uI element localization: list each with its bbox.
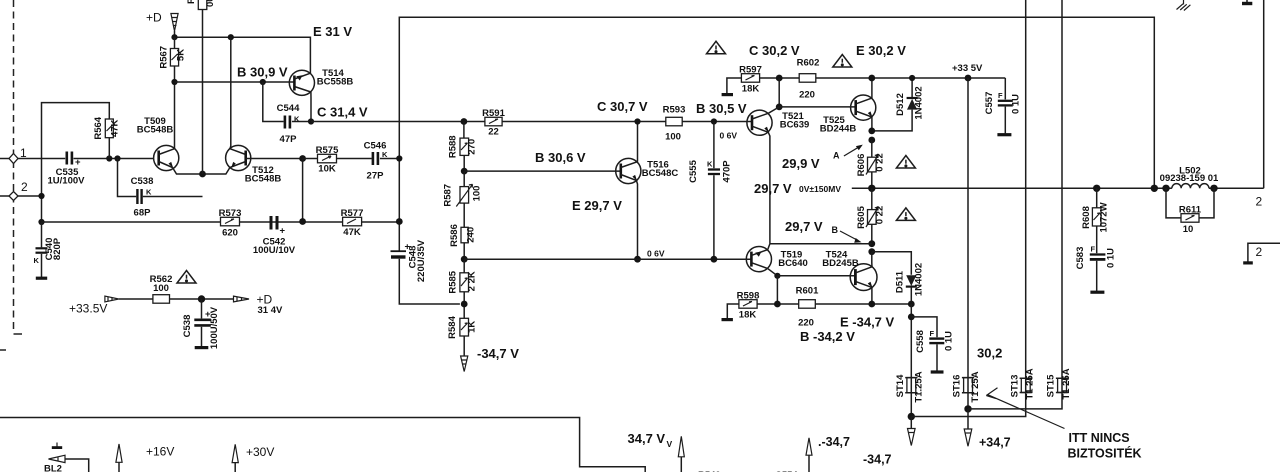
svg-text:R573: R573 <box>219 208 242 219</box>
svg-text:5K: 5K <box>176 49 187 61</box>
node dot T524 emitter <box>868 301 875 308</box>
warning triangle 5 <box>177 271 196 284</box>
resistor R5xx top (cut off) <box>186 0 216 10</box>
svg-text:ST15: ST15 <box>1046 374 1057 397</box>
wire R601 rail <box>757 303 911 305</box>
resistor R597 18K with ground <box>722 64 780 94</box>
svg-text:K: K <box>146 188 152 197</box>
svg-text:F: F <box>1091 245 1096 254</box>
svg-text:BD244B: BD244B <box>820 124 857 135</box>
node dot T519 coll / R601 <box>774 301 781 308</box>
capacitor C544 47P <box>263 82 311 145</box>
svg-text:.-34,7: .-34,7 <box>818 435 850 449</box>
node dot conn2 <box>38 193 44 199</box>
svg-text:R575: R575 <box>316 145 339 156</box>
node dot R567 top <box>171 34 177 40</box>
node dot output B lower <box>868 248 875 255</box>
svg-text:R605: R605 <box>856 205 867 228</box>
transistor T512 <box>226 145 282 184</box>
pointer line ITT NINCS <box>986 388 1064 429</box>
wire base rail to T514 <box>175 81 295 83</box>
svg-text:C546: C546 <box>364 141 387 152</box>
svg-text:18K: 18K <box>739 310 757 321</box>
wire T519 coll down <box>776 276 778 304</box>
vertical from terminal 1 <box>1263 0 1265 188</box>
node dot output A upper <box>868 127 875 134</box>
supply arrow up mid2 <box>806 438 812 472</box>
node dot C538b <box>198 295 205 302</box>
svg-text:B 30,6 V: B 30,6 V <box>535 150 586 165</box>
svg-text:47K: 47K <box>110 119 121 137</box>
capacitor C535 <box>48 152 86 187</box>
svg-text:K: K <box>707 160 713 169</box>
terminal 2 bottom right <box>1243 243 1280 263</box>
svg-text:-34,7 V: -34,7 V <box>477 346 519 361</box>
supply arrow +16V up <box>116 444 122 472</box>
wire ST16 node to ST15 <box>968 393 1062 409</box>
svg-text:E 29,7 V: E 29,7 V <box>572 198 622 213</box>
wire T525 base <box>779 106 856 108</box>
svg-text:31 4V: 31 4V <box>258 305 283 316</box>
svg-text:BC548B: BC548B <box>245 174 282 185</box>
svg-text:+D: +D <box>146 11 162 25</box>
svg-text:+16V: +16V <box>146 445 174 459</box>
svg-text:+: + <box>280 226 286 237</box>
svg-text:1N4002: 1N4002 <box>914 86 925 119</box>
resistor R584 1K <box>447 315 477 356</box>
svg-text:1N4002: 1N4002 <box>914 263 925 296</box>
fuse ST14 <box>895 371 925 416</box>
svg-text:R586: R586 <box>449 224 460 247</box>
resistor R575 10K <box>303 145 372 174</box>
node dot T516 coll <box>634 118 640 124</box>
svg-text:29,7 V: 29,7 V <box>754 181 792 196</box>
node dot L502 right <box>1210 185 1217 192</box>
feed arrow +D out <box>234 296 250 302</box>
svg-text:T1 25A: T1 25A <box>970 371 981 402</box>
resistor R564 <box>93 116 121 158</box>
transistor T524 <box>822 249 877 290</box>
svg-text:E 31 V: E 31 V <box>313 24 352 39</box>
node dot C558 tap <box>908 314 915 321</box>
node dot ST16 feed <box>965 75 972 82</box>
node dot R597/R602 <box>776 75 783 82</box>
svg-text:R587: R587 <box>443 184 454 207</box>
svg-text:220: 220 <box>799 90 815 101</box>
wire T512 base right <box>246 158 303 160</box>
wire B30,6 to T516 base <box>464 170 621 172</box>
svg-text:R593: R593 <box>663 104 686 115</box>
svg-text:1: 1 <box>20 146 27 160</box>
svg-text:D512: D512 <box>895 93 906 116</box>
svg-text:+33 5V: +33 5V <box>952 63 983 74</box>
wire T516 collector <box>637 122 639 162</box>
svg-text:BC639: BC639 <box>780 120 810 131</box>
svg-text:R567: R567 <box>159 46 170 69</box>
wire top loop from x399 corner to right <box>399 17 1154 251</box>
node dot C538 tap <box>114 155 120 161</box>
svg-text:18K: 18K <box>742 84 760 95</box>
svg-text:V: V <box>667 439 673 449</box>
node dot T512 collector branch <box>228 34 234 40</box>
svg-text:C583: C583 <box>1075 247 1086 270</box>
svg-text:R584: R584 <box>447 315 458 338</box>
resistor R588 270 <box>448 122 478 172</box>
svg-text:E 30,2 V: E 30,2 V <box>856 43 906 58</box>
svg-text:B -34,2 V: B -34,2 V <box>800 329 855 344</box>
svg-text:220U/35V: 220U/35V <box>416 239 427 282</box>
node dot C555 bottom <box>711 256 718 263</box>
emitter resistor R605 0,22 <box>856 188 886 243</box>
supply arrow +30V up <box>232 444 238 472</box>
warning triangle 3 <box>896 156 915 169</box>
svg-text:BC548B: BC548B <box>137 125 174 136</box>
wire input node to T509 base <box>74 158 155 160</box>
svg-text:0 1U: 0 1U <box>1106 248 1117 268</box>
svg-text:BC640: BC640 <box>778 258 808 269</box>
wire T524 emitter down <box>871 287 873 304</box>
wire D511 node down <box>910 304 912 378</box>
resistor R601 220 <box>796 285 819 328</box>
fuse ST16 <box>952 371 982 409</box>
node dot R608 top <box>1093 185 1100 192</box>
svg-text:29,7 V: 29,7 V <box>785 219 823 234</box>
svg-text:0 6V: 0 6V <box>720 131 738 141</box>
output rail 29,7V <box>852 187 1264 189</box>
pointer arrow B <box>840 231 862 243</box>
warning triangle 2 <box>833 55 852 68</box>
svg-text:R602: R602 <box>797 58 820 69</box>
resistor R585 2,2K <box>448 259 478 318</box>
dashed border left <box>0 0 22 350</box>
svg-text:100U/10V: 100U/10V <box>253 245 296 256</box>
capacitor C542 100U/10V <box>253 216 296 256</box>
supply arrow up mid1 <box>678 436 684 472</box>
svg-text:ST13: ST13 <box>1009 375 1020 398</box>
node dot output rail <box>868 185 875 192</box>
svg-text:C538: C538 <box>182 315 193 338</box>
svg-text:1U/100V: 1U/100V <box>48 176 86 187</box>
+33,5V rail <box>779 77 1005 79</box>
svg-text:BIZTOSITÉK: BIZTOSITÉK <box>1068 446 1142 461</box>
node dot T519 collector junction <box>774 273 780 279</box>
resistor R562 100 <box>150 274 234 303</box>
resistor R591 22 <box>482 108 505 138</box>
long vertical ST13 feed <box>1025 0 1027 378</box>
svg-text:ITT NINCS: ITT NINCS <box>1069 431 1130 445</box>
svg-text:270: 270 <box>467 139 478 155</box>
wire base node down <box>302 159 304 222</box>
terminal 1 top right <box>1242 0 1252 4</box>
svg-text:F: F <box>998 91 1003 100</box>
svg-text:1072W: 1072W <box>1099 202 1110 232</box>
svg-text:2 2K: 2 2K <box>467 271 478 291</box>
svg-text:E -34,7 V: E -34,7 V <box>840 315 895 330</box>
svg-text:1K: 1K <box>467 321 478 333</box>
node dot input <box>106 155 112 161</box>
svg-text:R601: R601 <box>796 285 819 296</box>
transistor T519 <box>746 244 807 276</box>
bottom border stepped wire <box>0 418 645 472</box>
node dot bottom-left <box>38 219 44 225</box>
svg-text:0V±150MV: 0V±150MV <box>799 184 841 194</box>
wire T521 emitter to B node <box>770 243 872 245</box>
wire T509 collector up <box>174 82 176 149</box>
transistor T525 <box>820 95 876 135</box>
diode D512 1N4002 <box>872 78 925 131</box>
wire bottom rail y222 <box>42 221 400 223</box>
svg-text:0 1U: 0 1U <box>944 331 955 351</box>
warning triangle 1 <box>707 41 726 54</box>
svg-text:C555: C555 <box>688 159 699 182</box>
node dot T512 base <box>299 155 306 162</box>
wire to D511 <box>872 252 912 275</box>
svg-text:+30V: +30V <box>246 445 274 459</box>
wire T514 collector down <box>310 92 312 122</box>
trimmer R587 100 <box>443 171 483 227</box>
chassis ground top right <box>1177 0 1191 11</box>
inductor L502 <box>1160 165 1219 188</box>
capacitor C548 220U/35V <box>391 239 460 304</box>
svg-text:K: K <box>34 256 40 265</box>
svg-text:C538: C538 <box>131 176 154 187</box>
svg-text:47P: 47P <box>280 134 298 145</box>
svg-text:T1.25A: T1.25A <box>914 371 925 402</box>
node dot 0,6V wire <box>461 256 468 263</box>
fuse ST15 <box>1046 368 1072 399</box>
resistor R598 18K with ground <box>722 291 760 321</box>
warning triangle 4 <box>896 208 915 221</box>
svg-text:10: 10 <box>1183 224 1194 235</box>
arrow +34,7 down at ST16 <box>964 409 972 446</box>
resistor R577 47K <box>341 208 364 238</box>
svg-text:10K: 10K <box>318 164 336 175</box>
wire emitter tail up to R5xx <box>202 10 204 175</box>
node dot emitters <box>199 171 206 178</box>
svg-text:R5: R5 <box>186 0 197 4</box>
svg-text:30,2: 30,2 <box>977 346 1002 361</box>
svg-text:B 30,9 V: B 30,9 V <box>237 65 288 80</box>
svg-text:C 30,7 V: C 30,7 V <box>597 99 648 114</box>
node dot test point A <box>868 137 875 144</box>
svg-text:D511: D511 <box>895 270 906 293</box>
svg-text:27P: 27P <box>367 171 385 182</box>
svg-text:47K: 47K <box>343 227 361 238</box>
capacitor C538 100U/50V <box>182 299 220 349</box>
resistor R586 240 <box>449 224 476 259</box>
svg-text:BC548C: BC548C <box>642 168 679 179</box>
svg-text:T1 25A: T1 25A <box>1061 368 1072 399</box>
svg-text:470P: 470P <box>722 160 733 183</box>
svg-text:C544: C544 <box>277 103 300 114</box>
svg-text:0 22: 0 22 <box>875 206 886 225</box>
node dot T525 coll <box>868 75 875 82</box>
feedback rectangle wire <box>42 103 110 222</box>
wire emitter coupling <box>173 168 230 175</box>
resistor R608 <box>1081 188 1110 253</box>
wire T521 emitter down <box>768 132 770 243</box>
resistor R593 100 <box>663 104 686 142</box>
svg-text:0 22: 0 22 <box>875 153 886 172</box>
svg-text:R598: R598 <box>737 291 760 302</box>
wire T524 collector up <box>871 252 873 267</box>
node dot ST14 out <box>908 413 915 420</box>
diode D511 1N4002 <box>895 263 925 304</box>
node dot R588 top <box>461 118 468 125</box>
svg-text:-34,7: -34,7 <box>863 453 892 467</box>
capacitor C555 470P <box>688 122 733 260</box>
svg-text:0 6V: 0 6V <box>647 249 665 259</box>
svg-text:R606: R606 <box>856 154 867 177</box>
svg-text:220: 220 <box>798 317 814 328</box>
svg-text:100: 100 <box>665 132 681 143</box>
svg-text:R585: R585 <box>448 270 459 293</box>
node dot ST16 out <box>964 405 971 412</box>
svg-text:240: 240 <box>465 227 476 243</box>
svg-text:22: 22 <box>488 127 499 138</box>
node dot D511 bottom <box>908 301 915 308</box>
capacitor C540 820P <box>34 222 64 278</box>
capacitor C546 27P <box>364 141 400 182</box>
node 1 input connector <box>0 146 65 164</box>
wire T525 emitter down <box>871 117 873 131</box>
transistor T521 <box>747 107 809 135</box>
node dot T516 emit <box>634 256 641 263</box>
node dot C546/vertical <box>396 155 402 161</box>
svg-text:R577: R577 <box>341 208 364 219</box>
wire ST14 node to ST13 <box>911 393 1025 417</box>
node dot C548 bottom <box>461 301 468 308</box>
svg-text:09238-159 01: 09238-159 01 <box>1160 173 1219 184</box>
wire T525 collector up <box>871 78 873 98</box>
svg-text:+33.5V: +33.5V <box>69 302 107 316</box>
svg-text:100: 100 <box>472 186 483 202</box>
transistor T509 <box>137 116 179 171</box>
svg-text:B: B <box>832 225 839 235</box>
svg-text:2: 2 <box>1256 195 1263 209</box>
wire C31,4 rail <box>311 121 752 123</box>
svg-text:BD245B: BD245B <box>822 258 859 269</box>
svg-text:ST16: ST16 <box>952 375 963 398</box>
svg-text:R588: R588 <box>448 135 459 158</box>
node dot R567 bottom <box>171 79 177 85</box>
svg-text:C557: C557 <box>984 92 995 115</box>
arrow -34,7 down at ST14 <box>908 417 916 446</box>
svg-text:29,9 V: 29,9 V <box>782 156 820 171</box>
svg-text:0 1U: 0 1U <box>1011 94 1022 114</box>
svg-text:BC558B: BC558B <box>317 77 354 88</box>
capacitor C538 68P <box>118 159 203 219</box>
emitter resistor R606 0,22 <box>856 140 886 188</box>
node dot D512 top <box>909 75 915 81</box>
node dot test point B <box>868 240 875 247</box>
capacitor C583 <box>1075 245 1117 293</box>
node dot C544 tap <box>260 79 266 85</box>
svg-text:100: 100 <box>153 283 169 294</box>
node dot B30,6 <box>461 168 468 175</box>
long vertical ST15 feed <box>1061 0 1063 378</box>
wire +D rail to T514 emitter <box>175 37 311 73</box>
wire T516 emitter <box>636 181 637 260</box>
node dot T521 collector <box>776 104 783 111</box>
resistor R611 10 <box>1166 188 1214 235</box>
BL2 arrow left <box>44 455 89 472</box>
transistor T514 <box>289 68 353 95</box>
svg-text:F: F <box>930 329 935 338</box>
svg-text:R611: R611 <box>1179 204 1202 215</box>
wire T524 base <box>777 275 855 277</box>
svg-text:R608: R608 <box>1081 206 1092 229</box>
svg-text:R564: R564 <box>93 116 104 139</box>
svg-text:820P: 820P <box>52 237 63 260</box>
svg-text:+34,7: +34,7 <box>979 436 1011 450</box>
svg-text:620: 620 <box>222 228 238 239</box>
capacitor C557 <box>984 78 1022 135</box>
svg-text:00: 00 <box>205 0 216 7</box>
transistor T516 <box>616 158 679 183</box>
svg-text:34,7 V: 34,7 V <box>628 431 666 446</box>
svg-text:ST14: ST14 <box>895 374 906 397</box>
supply arrow -34,7V down <box>461 356 468 372</box>
svg-text:A: A <box>833 151 840 161</box>
node 2 input connector <box>0 180 42 201</box>
resistor R573 620 <box>219 208 242 239</box>
svg-text:BL2: BL2 <box>44 464 62 472</box>
svg-text:K: K <box>294 115 300 124</box>
svg-text:R597: R597 <box>739 64 762 75</box>
svg-text:C558: C558 <box>915 330 926 353</box>
pointer arrow A <box>844 145 863 156</box>
svg-text:B 30,5 V: B 30,5 V <box>696 101 747 116</box>
capacitor C558 <box>911 317 954 372</box>
node dot C-31.4 <box>308 118 314 124</box>
wire T512 collector up <box>229 37 232 149</box>
resistor R567 5K <box>159 37 187 82</box>
fuse ST13 <box>1009 368 1035 399</box>
svg-text:100U/50V: 100U/50V <box>209 306 220 349</box>
+D feed arrow <box>171 14 178 38</box>
ground symbol BL2 <box>52 443 62 448</box>
node dot y222/vertical <box>396 218 403 225</box>
feed arrow +33.5V <box>105 296 153 302</box>
svg-text:68P: 68P <box>134 208 152 219</box>
node dot rail/top wire <box>1151 185 1158 192</box>
node dot R573 junction <box>299 218 306 225</box>
svg-text:2: 2 <box>21 180 28 194</box>
resistor R602 220 <box>797 58 820 101</box>
wire ST16 vertical <box>967 78 969 378</box>
wire 0,6V rail <box>464 258 751 260</box>
node dot C555 top <box>711 118 717 124</box>
svg-text:R591: R591 <box>482 108 505 119</box>
svg-text:C 31,4 V: C 31,4 V <box>317 105 368 120</box>
svg-text:C 30,2 V: C 30,2 V <box>749 43 800 58</box>
svg-text:T1 25A: T1 25A <box>1025 368 1036 399</box>
node dot L502 left <box>1162 185 1169 192</box>
svg-text:2: 2 <box>1256 245 1263 259</box>
wire R597 node down to T525 base rail <box>778 78 780 107</box>
